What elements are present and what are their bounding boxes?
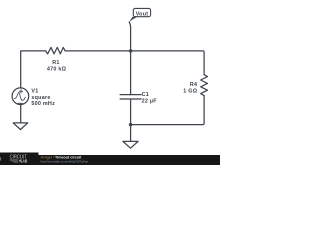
wire: node Vout down to C1 top plate (130, 51, 132, 95)
svg-text:1 GΩ: 1 GΩ (183, 89, 197, 95)
wire: V1 top to R1 left (left rail + top-left corner) (21, 51, 46, 88)
svg-text:C1: C1 (142, 92, 149, 98)
svg-text:square: square (31, 95, 50, 101)
svg-text:R4: R4 (190, 82, 197, 88)
logo left edge mark (0, 157, 1, 160)
svg-text:V1: V1 (31, 89, 38, 95)
resistor R4 (201, 75, 208, 96)
svg-text:22 µF: 22 µF (142, 98, 158, 104)
wire: C1 bottom plate to node 2 (130, 99, 132, 125)
ground (left, below V1) (13, 123, 28, 130)
wire: node Vout up to Vout flag (129, 22, 130, 51)
svg-text:500 mHz: 500 mHz (31, 101, 55, 107)
wire: node Vout to top-right corner down to R4 top (131, 51, 205, 75)
wire: R4 bottom to bottom-right corner to node 2 (131, 96, 205, 125)
svg-text:LAB: LAB (21, 158, 28, 164)
voltage source V1 (12, 88, 29, 105)
Vout flag bubble (133, 8, 150, 16)
svg-text:Vout: Vout (136, 11, 149, 17)
logo trace lines (10, 160, 19, 163)
node Vout junction dot (129, 49, 133, 53)
wire: R1 right to node Vout (65, 50, 130, 52)
watermark logo plate (0, 153, 39, 166)
svg-text:R1: R1 (52, 60, 59, 66)
wire: V1 bottom to ground (20, 105, 22, 123)
resistor R1 (46, 47, 65, 54)
capacitor C1 (120, 95, 141, 99)
svg-text:470 kΩ: 470 kΩ (47, 66, 67, 72)
wire: node 2 down to ground (130, 125, 132, 142)
Vout flag pointer tail (129, 17, 138, 23)
logo lightning bolt (19, 159, 22, 163)
ground (right, at C1/R4 junction) (123, 141, 138, 148)
node 2 junction dot (129, 123, 133, 127)
watermark bar (0, 155, 220, 165)
svg-text:http://circuitlab.com/c/6rfg73: http://circuitlab.com/c/6rfg7397q6ue (41, 159, 89, 163)
